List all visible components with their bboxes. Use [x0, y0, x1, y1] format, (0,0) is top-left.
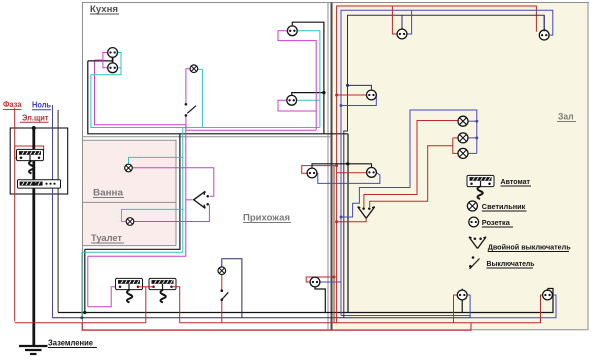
wire: red riser hall wall: [337, 6, 537, 323]
wire: red loop socket pair: [302, 164, 368, 173]
legend switch symbol: [469, 256, 480, 269]
breaker F2 spring: [161, 290, 166, 303]
wire: red hallway switch to run: [221, 301, 223, 323]
wire: red bottom-left socket: [306, 277, 334, 282]
svg-text:Розетка: Розетка: [482, 218, 511, 227]
wire: magenta toilet lamp to switch: [134, 205, 209, 222]
wire: red drop to socket Z1: [392, 6, 397, 34]
wall: hall left (dark double wall): [331, 3, 333, 330]
wire: blue loop socket pair: [318, 173, 380, 184]
wire: kitchen black ground run: [88, 61, 348, 134]
wall: apartment top: [82, 2, 589, 4]
junction dot pair ground: [346, 162, 349, 165]
wire: magenta sockets K3/K4: [278, 31, 316, 130]
wire: navy riser hall wall: [344, 15, 544, 318]
wire: black tick socket Z4: [461, 289, 463, 313]
svg-text:Эл.щит: Эл.щит: [22, 114, 49, 123]
panel box: [10, 128, 67, 194]
wall: apartment bottom: [82, 329, 589, 331]
breaker F1 spring: [127, 290, 132, 303]
wire: black ground bottom run: [58, 289, 553, 313]
wire: cyan loop sockets K1/K2: [91, 53, 121, 75]
socket H2 hall side: [367, 168, 377, 178]
breaker F2 hallway: [149, 278, 176, 289]
wire: magenta switch common: [186, 199, 193, 201]
wire: red branch inside panel: [15, 146, 18, 158]
label Кухня: [90, 4, 119, 14]
lamp L2 hall: [458, 133, 468, 143]
breaker in panel (Автомат): [17, 149, 44, 160]
label Заземление: [48, 339, 97, 348]
tick socket Z2: [543, 15, 545, 31]
room background: bathroom+toilet pink fill: [83, 140, 176, 245]
wire: magenta switch to run: [185, 117, 187, 131]
wall: bathroom right: [175, 140, 177, 246]
legend label Автомат: [501, 177, 532, 186]
wire: red switch line 1 to lamp L1: [364, 121, 459, 208]
wall: kitchen bottom: [82, 136, 331, 138]
svg-text:Фаза: Фаза: [3, 99, 22, 109]
label Эл.щит (panel): [20, 114, 49, 123]
wire: black link to sockets K1/K2: [88, 57, 113, 65]
wire: navy hallway lamp: [222, 259, 242, 318]
switch kitchen: [185, 103, 196, 117]
wire: dark circuit wire from panel: [57, 110, 59, 313]
label Ноль (neutral): [32, 100, 51, 110]
wall: bathroom top: [82, 139, 176, 141]
svg-text:Прихожая: Прихожая: [243, 213, 290, 224]
wire: main black riser through panel to ground: [32, 128, 35, 346]
wire: cyan sockets K3/K4: [296, 31, 320, 128]
wire: red drop from breakers to phase run: [145, 287, 147, 323]
wire: black riser bath wall: [85, 134, 180, 250]
socket Z3 hall left: [367, 90, 377, 100]
junction dot ground run: [83, 311, 86, 314]
svg-text:Светильник: Светильник: [482, 202, 526, 211]
wire: black tick socket Z3: [346, 84, 371, 90]
legend label Светильник: [482, 202, 527, 211]
socket hallway bottom: [310, 277, 320, 287]
lamp kitchen: [190, 65, 198, 73]
wire: red feed to double switch: [335, 218, 366, 223]
breaker F1 hallway: [116, 278, 143, 289]
wire: cyan riser joining neutral run: [80, 252, 83, 319]
lamp bathroom: [125, 164, 133, 172]
lamp L3 hall: [458, 148, 468, 158]
wire: red phase run right segment: [180, 297, 541, 323]
svg-text:Выключатель: Выключатель: [487, 259, 535, 268]
svg-text:Заземление: Заземление: [48, 339, 94, 348]
wire: phase feed red vertical: [15, 108, 44, 322]
legend label Розетка: [482, 218, 513, 227]
wire: blue drop to socket Z1: [407, 10, 412, 34]
wire: blue bottom-left socket: [321, 281, 342, 283]
wire: blue loop socket Z4: [467, 295, 471, 318]
wire: blue run row: [341, 316, 470, 318]
ground symbol (Заземление): [19, 346, 48, 354]
lamp toilet: [126, 218, 134, 226]
wall: bathroom / toilet divider: [82, 201, 176, 203]
socket Z4 hall bottom: [457, 290, 467, 300]
socket K2 kitchen: [108, 63, 118, 73]
wall: apartment left: [82, 3, 84, 330]
wire: black ticks socket pair: [312, 164, 372, 168]
svg-text:Автомат: Автомат: [501, 177, 531, 186]
socket Z2 hall top: [539, 30, 549, 40]
wire: magenta lamp feed to switch: [186, 69, 190, 103]
wire: red link between breakers: [138, 286, 154, 288]
junction dot K3 ground: [322, 91, 325, 94]
svg-text:Двойной выключатель: Двойной выключатель: [488, 243, 571, 252]
wire: navy tick socket Z1: [401, 15, 403, 30]
wall: toilet bottom: [82, 245, 176, 247]
wire: kitchen cyan run: [91, 75, 320, 128]
breaker spring in panel: [29, 161, 34, 174]
switch hallway: [221, 289, 229, 301]
legend label Выключатель: [487, 259, 535, 268]
wire: kitchen magenta run: [95, 60, 317, 130]
junction dot panel top: [32, 126, 36, 130]
legend socket symbol: [469, 217, 479, 227]
wire: cyan toilet lamp: [122, 209, 183, 221]
legend breaker spring: [478, 187, 483, 200]
wire: red phase run left segment: [15, 322, 146, 324]
legend label Двойной выключатель: [488, 243, 571, 252]
legend double switch symbol: [469, 237, 486, 249]
svg-text:Ванна: Ванна: [93, 188, 124, 198]
wire: red risers bottom sockets: [454, 295, 543, 323]
socket K3 kitchen right: [287, 26, 297, 36]
lamp L1 hall: [458, 116, 468, 126]
label Прихожая: [243, 213, 291, 224]
double switch bathroom/toilet: [194, 191, 209, 208]
wire: blue staircase to lamps: [340, 110, 477, 219]
wire: blue riser hall wall: [341, 10, 553, 315]
socket Z5 hall bottom: [543, 289, 553, 300]
wire: red switch line 2 to lamps L2 L3: [370, 138, 459, 207]
wire: magenta riser bath wall: [88, 130, 186, 256]
legend breaker symbol: [467, 175, 494, 186]
svg-text:Туалет: Туалет: [91, 233, 123, 243]
double switch hall: [358, 207, 375, 219]
wire: black ground sockets K3/K4: [292, 22, 324, 134]
socket K1 kitchen: [108, 48, 118, 58]
wire: red detour below wall: [82, 323, 471, 331]
wire: blue from socket Z3: [340, 95, 377, 107]
label Туалет: [91, 233, 124, 243]
wire: magenta riser to breakers: [87, 256, 89, 306]
wire: cyan riser bath wall: [82, 128, 183, 253]
lamp hallway: [218, 267, 226, 275]
wire: blue run to hall sockets: [470, 295, 556, 318]
label Фаза (phase): [3, 99, 22, 110]
wire: blue links to lamps: [468, 120, 479, 154]
wire: navy bottom run: [53, 317, 471, 319]
wire: magenta bath lamp to switch: [133, 168, 214, 196]
svg-text:Кухня: Кухня: [90, 4, 118, 14]
svg-text:Зал: Зал: [558, 112, 574, 123]
label Зал: [557, 112, 576, 123]
socket Z1 hall top: [397, 29, 407, 39]
wire: red to socket Z3: [335, 94, 366, 97]
wire: red hallway lamp-switch: [221, 275, 223, 290]
wire: black riser hall wall: [347, 134, 349, 313]
wire: red riser second circuit: [333, 166, 336, 323]
wall: kitchen right (light line): [327, 3, 329, 330]
wall: apartment right: [587, 3, 589, 330]
wire: magenta bottom link: [88, 287, 119, 307]
wire: cyan bath lamp: [129, 157, 183, 164]
room background: hall (Зал) beige fill: [333, 3, 589, 330]
svg-text:Ноль: Ноль: [32, 100, 51, 110]
label Ванна: [93, 188, 124, 198]
wire: black riser from toilet wall: [84, 249, 86, 312]
socket K4 kitchen right: [287, 95, 297, 105]
wire: black bottom-left socket: [315, 288, 325, 313]
wire: cyan lamp return: [198, 69, 203, 127]
legend lamp symbol: [467, 201, 477, 211]
socket H1 hallway wall: [307, 168, 317, 178]
terminal block in panel: [18, 180, 61, 188]
wire: magenta loop sockets K1/K2: [95, 53, 108, 68]
junction dot terminal block: [32, 182, 36, 186]
wire: red drop from F2 to run: [172, 287, 180, 323]
wire: neutral blue vertical through panel: [52, 105, 54, 318]
